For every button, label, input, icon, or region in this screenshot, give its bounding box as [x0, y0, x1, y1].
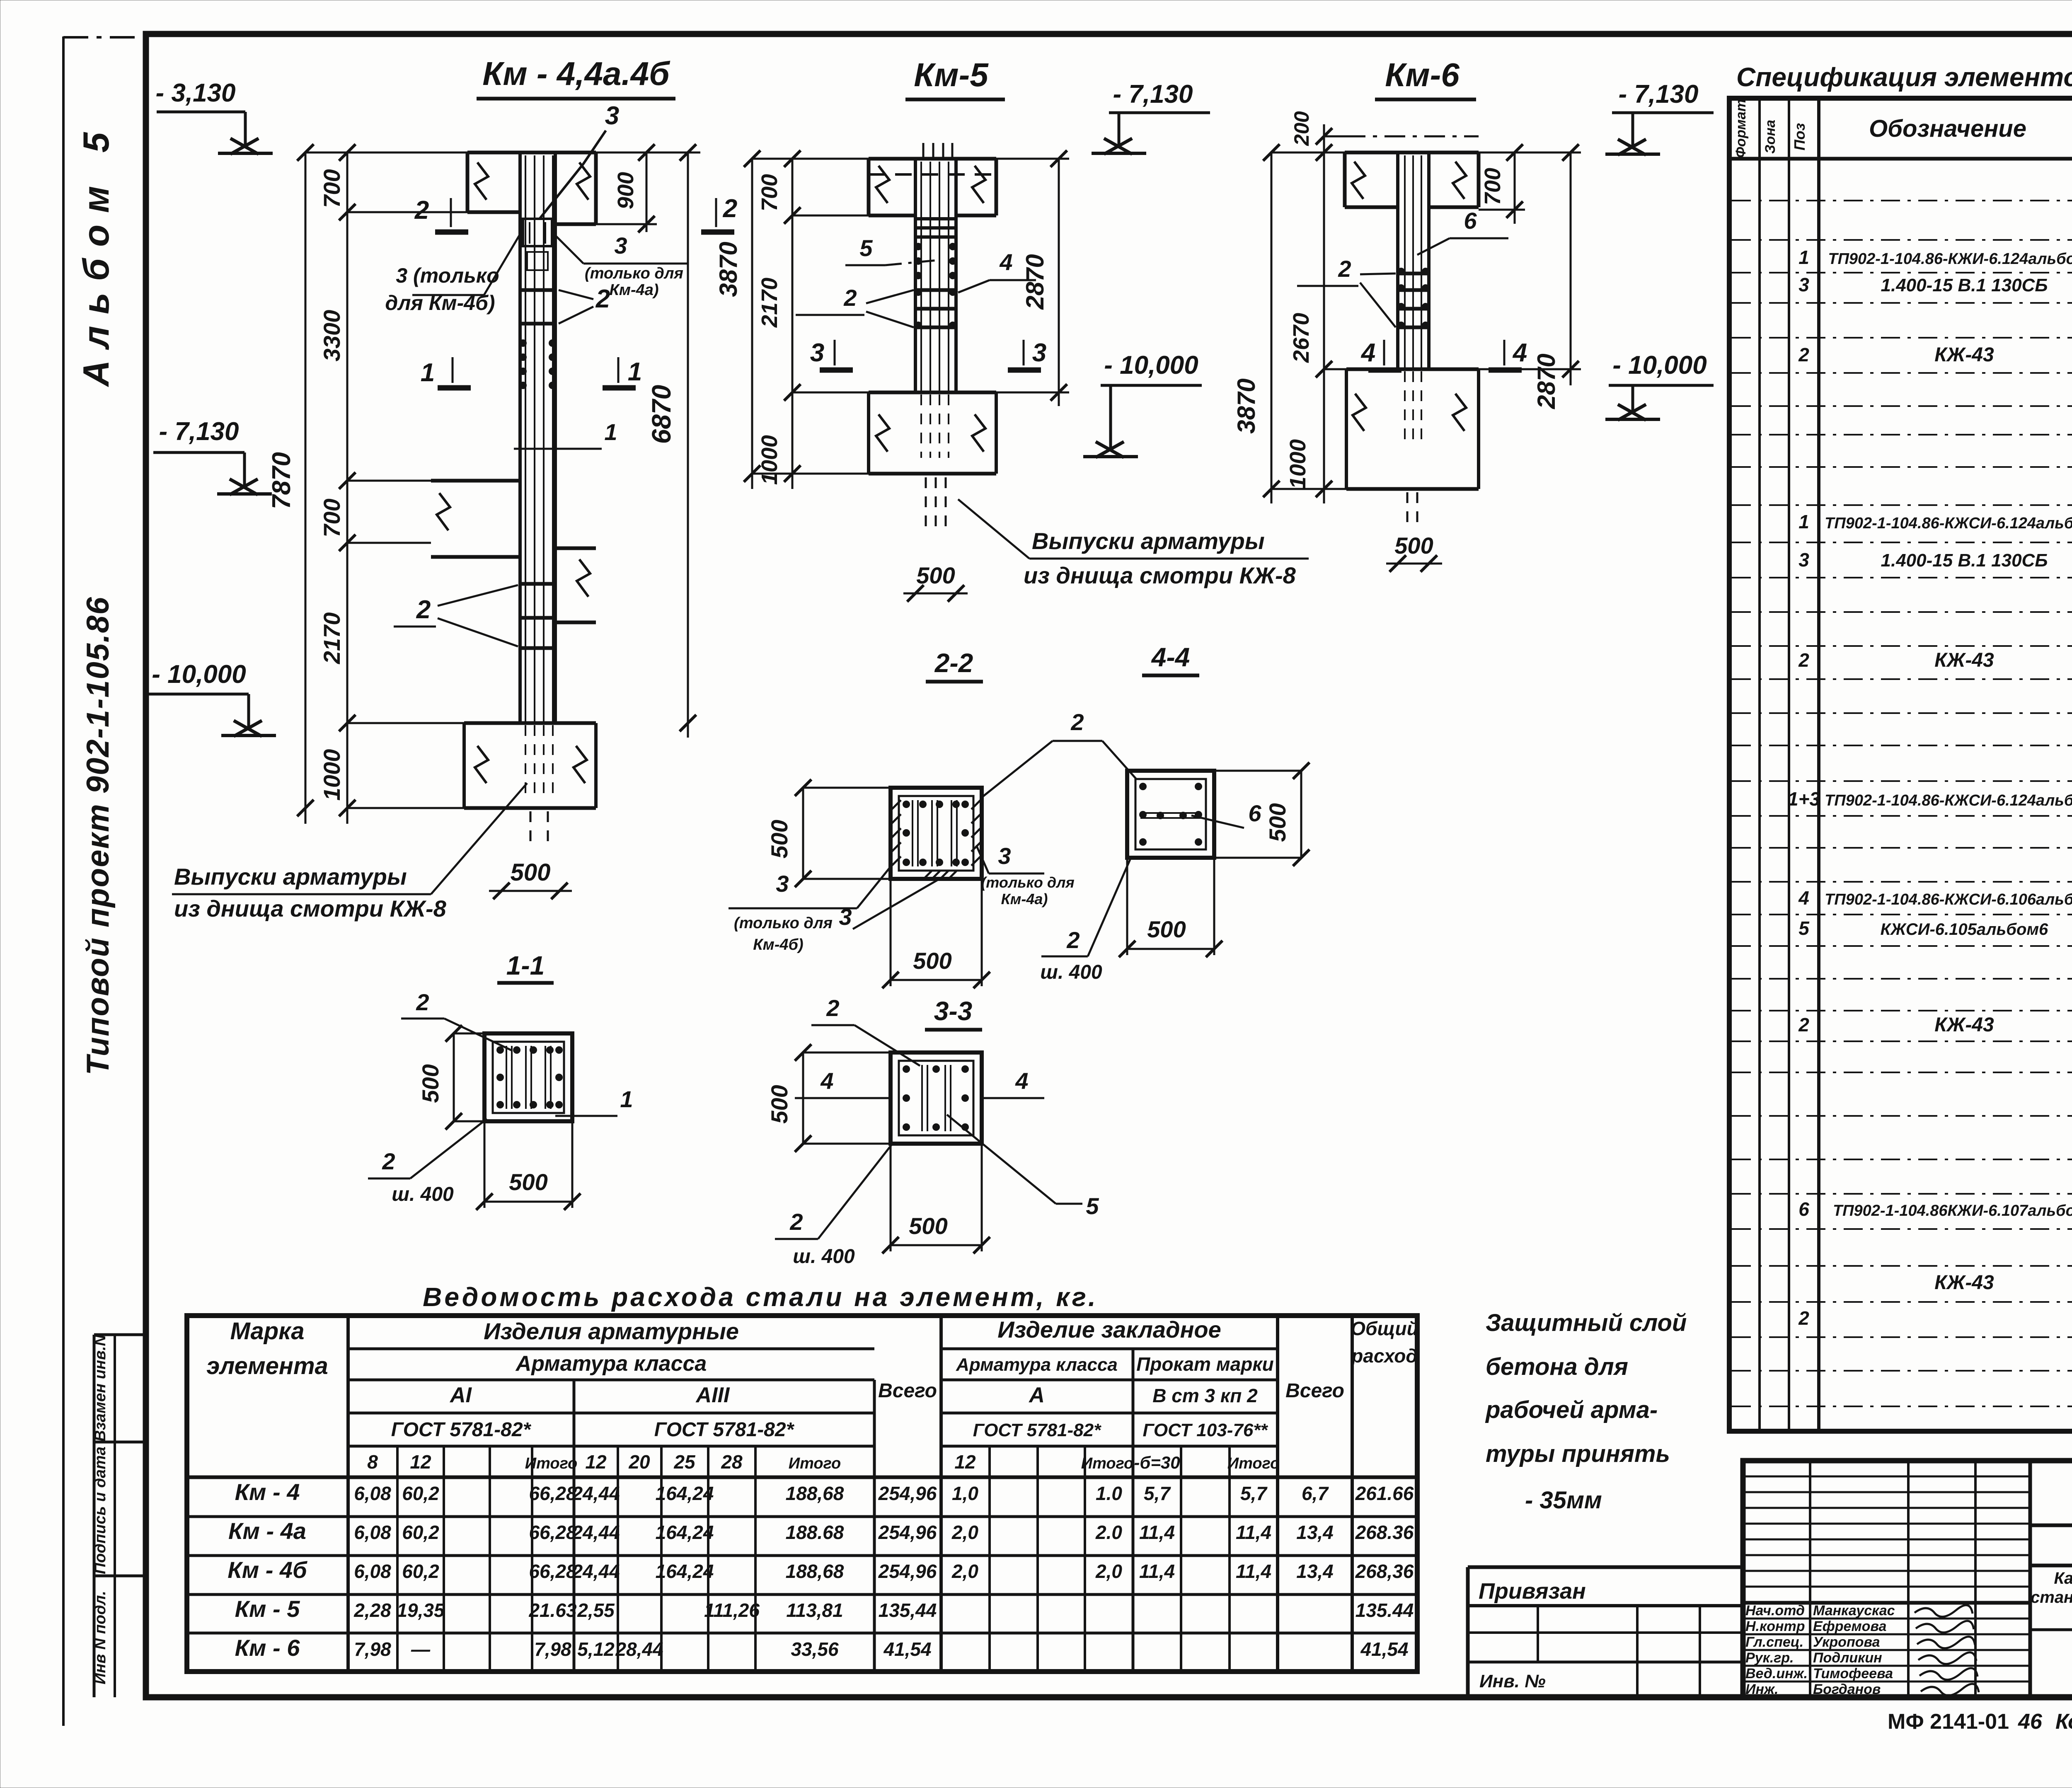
svg-text:бетона для: бетона для — [1486, 1353, 1628, 1380]
svg-text:Ефремова: Ефремова — [1813, 1619, 1886, 1634]
dashed box below plate — [527, 252, 548, 270]
svg-text:268.36: 268.36 — [1355, 1522, 1414, 1543]
svg-text:6: 6 — [1798, 1198, 1809, 1220]
svg-text:4: 4 — [1512, 339, 1527, 367]
svg-text:- 10,000: - 10,000 — [1612, 351, 1707, 380]
svg-text:4: 4 — [999, 249, 1012, 275]
svg-text:2870: 2870 — [1021, 254, 1049, 310]
svg-text:5,12: 5,12 — [577, 1638, 615, 1660]
svg-text:- 10,000: - 10,000 — [1104, 351, 1198, 380]
svg-text:Изделие закладное: Изделие закладное — [997, 1316, 1221, 1343]
section 2-2 outer — [891, 788, 982, 879]
svg-text:Изделия арматурные: Изделия арматурные — [484, 1318, 739, 1344]
svg-text:2.0: 2.0 — [1095, 1522, 1122, 1543]
svg-text:расход: расход — [1351, 1345, 1418, 1367]
svg-text:Общий: Общий — [1351, 1318, 1418, 1339]
svg-text:ТП902-1-104.86КЖИ-6.107альбом6: ТП902-1-104.86КЖИ-6.107альбом6 — [1833, 1202, 2072, 1219]
Km-6 stirrups — [1397, 272, 1430, 276]
svg-text:1.400-15 В.1 130СБ: 1.400-15 В.1 130СБ — [1881, 275, 2048, 295]
svg-text:254,96: 254,96 — [878, 1522, 937, 1543]
svg-text:5: 5 — [1798, 917, 1810, 939]
lower stirrups pos 2 — [519, 582, 557, 586]
svg-text:Км-4б): Км-4б) — [753, 936, 803, 953]
svg-text:- 7,130: - 7,130 — [1113, 80, 1193, 109]
svg-text:12: 12 — [954, 1451, 976, 1473]
svg-text:24,44: 24,44 — [571, 1561, 620, 1582]
svg-text:7,98: 7,98 — [354, 1638, 391, 1660]
svg-text:ш. 400: ш. 400 — [793, 1246, 855, 1268]
svg-text:254,96: 254,96 — [878, 1561, 937, 1582]
svg-text:6870: 6870 — [646, 385, 676, 444]
svg-text:1,0: 1,0 — [952, 1483, 978, 1504]
svg-text:1000: 1000 — [319, 749, 345, 801]
svg-text:—: — — [411, 1638, 431, 1660]
svg-text:4: 4 — [1015, 1068, 1028, 1094]
svg-text:- 35мм: - 35мм — [1525, 1487, 1602, 1514]
svg-text:туры принять: туры принять — [1486, 1440, 1670, 1467]
svg-text:из днища смотри КЖ-8: из днища смотри КЖ-8 — [174, 895, 447, 922]
Km-4 shaft — [518, 152, 522, 723]
svg-text:2,55: 2,55 — [577, 1599, 615, 1621]
svg-text:2: 2 — [382, 1148, 395, 1174]
svg-text:2: 2 — [1066, 927, 1080, 953]
rebar stubs above slab — [922, 143, 925, 159]
Km-4 mid floor slabs — [431, 479, 520, 483]
svg-text:13,4: 13,4 — [1296, 1522, 1334, 1543]
svg-text:2: 2 — [595, 285, 610, 313]
svg-text:1-1: 1-1 — [506, 951, 545, 980]
svg-text:3: 3 — [839, 904, 852, 930]
svg-text:188,68: 188,68 — [786, 1483, 844, 1504]
svg-text:2,28: 2,28 — [353, 1599, 391, 1621]
sheet trim line left — [62, 36, 65, 1726]
svg-text:1: 1 — [421, 358, 435, 387]
svg-text:- 10,000: - 10,000 — [152, 660, 246, 689]
svg-text:рабочей арма-: рабочей арма- — [1485, 1396, 1658, 1423]
dashed row lines — [1732, 200, 2072, 201]
dims of 4-4 — [1300, 771, 1302, 858]
svg-text:20: 20 — [628, 1451, 650, 1473]
svg-text:АI: АI — [449, 1383, 472, 1407]
svg-text:113,81: 113,81 — [786, 1599, 843, 1621]
svg-text:1: 1 — [628, 358, 642, 386]
svg-text:5: 5 — [859, 235, 873, 261]
svg-text:254,96: 254,96 — [878, 1483, 937, 1504]
svg-text:3: 3 — [1798, 274, 1809, 295]
svg-text:11,4: 11,4 — [1139, 1522, 1175, 1543]
svg-text:Арматура класса: Арматура класса — [515, 1352, 707, 1376]
svg-text:ГОСТ 5781-82*: ГОСТ 5781-82* — [973, 1420, 1101, 1440]
svg-text:24,44: 24,44 — [571, 1522, 620, 1543]
svg-text:700: 700 — [319, 498, 345, 537]
svg-text:135.44: 135.44 — [1356, 1599, 1414, 1621]
svg-text:2: 2 — [1338, 256, 1351, 282]
svg-text:-б=30: -б=30 — [1134, 1453, 1180, 1472]
svg-text:6: 6 — [1248, 800, 1261, 826]
svg-text:66,28: 66,28 — [529, 1522, 577, 1543]
leader 1 right — [555, 1115, 617, 1117]
svg-text:188,68: 188,68 — [786, 1561, 844, 1582]
svg-text:60,2: 60,2 — [402, 1522, 439, 1543]
Km-5 dims left — [751, 159, 753, 489]
svg-text:135,44: 135,44 — [879, 1599, 937, 1621]
svg-text:элемента: элемента — [206, 1352, 328, 1379]
svg-text:500: 500 — [913, 948, 951, 974]
svg-text:Км - 4,4а.4б: Км - 4,4а.4б — [482, 55, 670, 92]
svg-text:500: 500 — [511, 859, 551, 886]
svg-text:4: 4 — [1798, 887, 1809, 909]
svg-text:500: 500 — [1264, 803, 1290, 842]
svg-text:6,08: 6,08 — [354, 1483, 391, 1504]
svg-text:11,4: 11,4 — [1236, 1561, 1271, 1582]
svg-text:19,35: 19,35 — [397, 1599, 445, 1621]
rebar dots on shaft — [519, 339, 527, 347]
svg-text:13,4: 13,4 — [1296, 1561, 1334, 1582]
svg-text:7870: 7870 — [267, 452, 296, 509]
svg-text:Вед.инж.: Вед.инж. — [1745, 1666, 1808, 1682]
svg-text:2,0: 2,0 — [951, 1561, 978, 1582]
Km-5 shaft — [914, 159, 917, 392]
svg-text:1: 1 — [620, 1086, 633, 1112]
dim line 7870 — [305, 152, 307, 824]
svg-text:КЖ-43: КЖ-43 — [1934, 344, 1994, 366]
privyazan block — [1468, 1565, 1743, 1569]
svg-text:111,26: 111,26 — [704, 1599, 760, 1621]
svg-text:Итого: Итого — [1081, 1455, 1133, 1472]
svg-text:3300: 3300 — [319, 310, 345, 362]
svg-text:Итого: Итого — [1227, 1455, 1280, 1472]
svg-text:261.66: 261.66 — [1355, 1483, 1414, 1504]
embedded plate box (pos 3) — [523, 219, 552, 246]
dim line segments 700/3300/700/2170/1000 — [346, 152, 349, 824]
svg-text:28: 28 — [721, 1451, 743, 1473]
dims of 2-2 — [802, 788, 804, 879]
svg-text:Марка: Марка — [230, 1318, 304, 1345]
svg-text:5,7: 5,7 — [1144, 1483, 1171, 1504]
svg-text:ГОСТ 5781-82*: ГОСТ 5781-82* — [391, 1419, 532, 1441]
svg-text:ГОСТ 5781-82*: ГОСТ 5781-82* — [654, 1419, 795, 1441]
svg-text:2: 2 — [1798, 1307, 1809, 1329]
svg-text:2: 2 — [416, 595, 431, 624]
svg-text:Ведомость расхода стали на: Ведомость расхода стали на элемент, кг. — [423, 1282, 1098, 1312]
leader 1 mid — [514, 448, 602, 450]
section 3-3 outer — [891, 1052, 982, 1144]
svg-text:(только для: (только для — [734, 915, 833, 932]
svg-text:3: 3 — [810, 339, 824, 367]
svg-text:7,98: 7,98 — [534, 1638, 571, 1660]
left margin stamp boxes — [93, 1335, 96, 1697]
svg-text:700: 700 — [1480, 168, 1505, 205]
svg-text:11,4: 11,4 — [1236, 1522, 1271, 1543]
svg-text:6,7: 6,7 — [1302, 1483, 1329, 1504]
svg-text:- 7,130: - 7,130 — [159, 417, 239, 446]
svg-text:КЖСИ-6.105альбом6: КЖСИ-6.105альбом6 — [1881, 920, 2048, 939]
svg-text:3: 3 — [614, 232, 627, 259]
svg-text:164,24: 164,24 — [656, 1522, 714, 1543]
svg-text:Инв. №: Инв. № — [1479, 1671, 1546, 1691]
svg-text:2: 2 — [1798, 649, 1809, 671]
svg-text:12: 12 — [410, 1451, 431, 1473]
svg-text:МФ 2141-01: МФ 2141-01 — [1888, 1710, 2009, 1734]
svg-text:2: 2 — [1070, 709, 1084, 735]
svg-text:Защитный слой: Защитный слой — [1486, 1309, 1687, 1336]
svg-text:2: 2 — [723, 194, 737, 223]
svg-text:Взамен инв.N: Взамен инв.N — [92, 1334, 109, 1442]
svg-text:станция при глубине заложения: станция при глубине заложения — [2031, 1588, 2072, 1607]
svg-text:5: 5 — [1086, 1193, 1099, 1219]
svg-text:Итого: Итого — [789, 1455, 841, 1472]
svg-text:Всего: Всего — [1285, 1380, 1344, 1402]
dim 6870 right — [687, 152, 689, 738]
svg-text:АIII: АIII — [695, 1383, 730, 1407]
svg-text:Инж.: Инж. — [1745, 1682, 1778, 1697]
svg-text:1+3: 1+3 — [1788, 788, 1820, 810]
svg-text:700: 700 — [757, 174, 782, 211]
svg-text:Тимофеева: Тимофеева — [1813, 1666, 1893, 1682]
svg-text:Манкаускас: Манкаускас — [1813, 1603, 1895, 1619]
leader 5 — [947, 1115, 1056, 1204]
Km-4 footing — [464, 721, 596, 725]
svg-text:(только для: (только для — [981, 874, 1074, 891]
svg-text:6,08: 6,08 — [354, 1561, 391, 1582]
svg-text:В ст 3 кп 2: В ст 3 кп 2 — [1152, 1385, 1258, 1406]
svg-text:КЖ-43: КЖ-43 — [1934, 649, 1994, 671]
svg-text:1.0: 1.0 — [1096, 1483, 1122, 1504]
svg-text:Типовой проект 902-1-105.86: Типовой проект 902-1-105.86 — [80, 596, 116, 1075]
svg-text:33,56: 33,56 — [791, 1638, 839, 1660]
svg-text:Укропова: Укропова — [1813, 1634, 1880, 1650]
svg-text:900: 900 — [613, 172, 638, 209]
svg-text:Итого: Итого — [525, 1455, 577, 1472]
svg-text:2: 2 — [843, 285, 857, 311]
Km-5 dim right 2870 — [1058, 159, 1060, 406]
svg-text:6,08: 6,08 — [354, 1522, 391, 1543]
dim 900 right of top — [646, 152, 648, 232]
Km-6 footing — [1346, 368, 1479, 371]
svg-text:3 (только: 3 (только — [396, 264, 499, 287]
Km-5 top slab — [869, 157, 996, 161]
svg-text:1: 1 — [1798, 247, 1809, 268]
svg-text:Км - 6: Км - 6 — [235, 1635, 300, 1661]
svg-text:ТП902-1-104.86-КЖСИ-6.106альбо: ТП902-1-104.86-КЖСИ-6.106альбом6 — [1825, 891, 2072, 908]
svg-text:24,44: 24,44 — [571, 1483, 620, 1504]
svg-text:3-3: 3-3 — [934, 996, 973, 1026]
svg-text:Км - 4а: Км - 4а — [228, 1518, 306, 1544]
svg-text:Нач.отд: Нач.отд — [1745, 1603, 1805, 1619]
svg-text:500: 500 — [766, 820, 792, 858]
Km-6 top slab — [1345, 151, 1479, 155]
svg-text:8: 8 — [367, 1451, 378, 1473]
rebar outlets dashed below — [530, 811, 532, 845]
svg-text:60,2: 60,2 — [402, 1561, 439, 1582]
svg-text:4: 4 — [820, 1068, 833, 1094]
svg-text:46: 46 — [2018, 1710, 2043, 1734]
dim 500 under Km-4 — [489, 890, 572, 892]
svg-text:КЖ-43: КЖ-43 — [1934, 1272, 1994, 1294]
spec header bottom — [1729, 157, 2072, 161]
svg-text:Зона: Зона — [1762, 120, 1778, 154]
svg-text:Км-5: Км-5 — [914, 56, 989, 93]
svg-text:3870: 3870 — [714, 242, 742, 297]
svg-text:1000: 1000 — [757, 435, 782, 485]
svg-text:2: 2 — [416, 989, 429, 1015]
section 1-1 outer — [484, 1033, 572, 1121]
svg-text:3: 3 — [605, 102, 619, 130]
svg-text:500: 500 — [1394, 532, 1433, 559]
svg-text:200: 200 — [1290, 111, 1313, 146]
svg-text:28,44: 28,44 — [615, 1638, 663, 1660]
svg-text:2: 2 — [414, 196, 429, 225]
svg-text:1000: 1000 — [1285, 439, 1310, 489]
svg-text:КЖ-43: КЖ-43 — [1934, 1014, 1994, 1036]
svg-text:Подпись и дата: Подпись и дата — [92, 1447, 109, 1574]
svg-text:Спецификация элементов к монол: Спецификация элементов к монолитным коло… — [1736, 62, 2072, 92]
upper stirrups pos 2 — [519, 288, 557, 292]
svg-text:1: 1 — [1798, 511, 1809, 532]
svg-text:2-2: 2-2 — [934, 648, 973, 678]
svg-text:2,0: 2,0 — [1095, 1561, 1122, 1582]
svg-text:2,0: 2,0 — [951, 1522, 978, 1543]
svg-text:4-4: 4-4 — [1151, 642, 1190, 672]
svg-text:2170: 2170 — [319, 612, 345, 665]
svg-text:Арматура класса: Арматура класса — [956, 1355, 1118, 1375]
svg-text:Прокат марки: Прокат марки — [1136, 1353, 1274, 1375]
svg-text:2670: 2670 — [1289, 313, 1314, 363]
svg-text:500: 500 — [766, 1085, 792, 1123]
svg-text:21.63: 21.63 — [528, 1599, 577, 1621]
svg-text:ТП902-1-104.86-КЖИ-6.124альбом: ТП902-1-104.86-КЖИ-6.124альбом 6 — [1828, 250, 2072, 268]
svg-text:500: 500 — [916, 562, 955, 588]
svg-text:500: 500 — [509, 1169, 547, 1195]
svg-text:700: 700 — [319, 169, 345, 208]
Km-5 footing — [869, 391, 996, 394]
svg-text:ш. 400: ш. 400 — [392, 1183, 454, 1205]
svg-text:- 7,130: - 7,130 — [1618, 80, 1698, 109]
Km-5 stirrups — [914, 217, 957, 220]
svg-text:А: А — [1028, 1383, 1045, 1407]
svg-text:Всего: Всего — [878, 1380, 937, 1402]
svg-text:(только для: (только для — [585, 265, 683, 282]
svg-text:Км-4а): Км-4а) — [1001, 890, 1048, 907]
dims of 3-3 — [802, 1052, 804, 1144]
hatched plates in 2-2 — [892, 800, 901, 809]
svg-text:3: 3 — [998, 843, 1011, 869]
svg-text:2170: 2170 — [757, 278, 782, 328]
svg-text:3: 3 — [1798, 549, 1809, 571]
svg-text:188.68: 188.68 — [786, 1522, 844, 1543]
svg-text:60,2: 60,2 — [402, 1483, 439, 1504]
svg-text:Инв N подл.: Инв N подл. — [92, 1591, 109, 1684]
svg-text:66,28: 66,28 — [529, 1561, 577, 1582]
svg-text:5,7: 5,7 — [1240, 1483, 1268, 1504]
svg-text:500: 500 — [909, 1213, 947, 1239]
svg-text:Гл.спец.: Гл.спец. — [1745, 1634, 1803, 1650]
svg-text:1: 1 — [604, 419, 617, 445]
svg-text:Рук.гр.: Рук.гр. — [1745, 1650, 1794, 1666]
svg-text:Км - 4: Км - 4 — [235, 1479, 300, 1505]
svg-text:4: 4 — [1360, 339, 1375, 367]
Km-6 top dash-dot line — [1345, 135, 1479, 138]
Km-4 top slab — [467, 151, 596, 155]
svg-text:Альбом 5: Альбом 5 — [75, 121, 116, 387]
svg-text:ш. 400: ш. 400 — [1040, 961, 1102, 983]
svg-text:из днища смотри КЖ-8: из днища смотри КЖ-8 — [1024, 562, 1296, 588]
svg-text:Выпуски арматуры: Выпуски арматуры — [1032, 528, 1265, 554]
svg-text:268,36: 268,36 — [1355, 1561, 1414, 1582]
svg-text:12: 12 — [585, 1451, 607, 1473]
svg-text:66,28: 66,28 — [529, 1483, 577, 1504]
svg-text:ТП902-1-104.86-КЖСИ-6.124альбо: ТП902-1-104.86-КЖСИ-6.124альбом6 — [1825, 792, 2072, 809]
svg-text:41,54: 41,54 — [1360, 1638, 1408, 1660]
svg-text:3870: 3870 — [1232, 378, 1260, 433]
svg-text:Канализационная насосная: Канализационная насосная — [2054, 1569, 2072, 1587]
Km-6 dims left — [1271, 152, 1273, 503]
svg-text:2: 2 — [826, 995, 839, 1021]
leader 6 — [1191, 815, 1244, 828]
svg-text:Обозначение: Обозначение — [1869, 115, 2026, 142]
svg-text:2: 2 — [789, 1209, 803, 1235]
svg-text:2: 2 — [1798, 344, 1809, 365]
Km-6 dims right — [1514, 152, 1516, 224]
svg-text:- 3,130: - 3,130 — [155, 79, 235, 107]
top trim dash-dot — [63, 36, 146, 39]
svg-text:Км-4а): Км-4а) — [609, 281, 658, 299]
section 4-4 outer — [1127, 771, 1214, 858]
dim 500 under Km-5 — [903, 593, 968, 595]
svg-text:164,24: 164,24 — [656, 1483, 714, 1504]
svg-text:Км - 4б: Км - 4б — [228, 1557, 307, 1583]
svg-text:500: 500 — [417, 1064, 443, 1103]
svg-text:Км-6: Км-6 — [1385, 56, 1460, 93]
svg-text:Копировал: Копировал — [2055, 1710, 2072, 1734]
svg-text:2870: 2870 — [1532, 353, 1560, 409]
dims of 1-1 — [453, 1033, 455, 1121]
svg-text:Подликин: Подликин — [1813, 1650, 1882, 1666]
svg-text:ТП902-1-104.86-КЖСИ-6.124альбо: ТП902-1-104.86-КЖСИ-6.124альбом6 — [1825, 515, 2072, 532]
dim 500 under Km-6 — [1386, 563, 1442, 565]
svg-text:Н.контр: Н.контр — [1745, 1619, 1805, 1634]
svg-text:164,24: 164,24 — [656, 1561, 714, 1582]
svg-text:500: 500 — [1147, 916, 1186, 942]
svg-text:3: 3 — [776, 871, 789, 897]
Km-6 shaft — [1396, 152, 1399, 369]
svg-text:Поз: Поз — [1791, 123, 1808, 150]
svg-text:1.400-15 В.1 130СБ: 1.400-15 В.1 130СБ — [1881, 550, 2048, 571]
svg-text:ГОСТ 103-76**: ГОСТ 103-76** — [1143, 1420, 1268, 1440]
svg-text:41,54: 41,54 — [883, 1638, 931, 1660]
svg-text:Привязан: Привязан — [1479, 1579, 1586, 1604]
svg-text:Выпуски арматуры: Выпуски арматуры — [174, 864, 407, 890]
svg-text:6: 6 — [1464, 208, 1477, 234]
svg-text:Богданов: Богданов — [1813, 1682, 1881, 1697]
svg-text:3: 3 — [1032, 339, 1046, 367]
svg-text:25: 25 — [673, 1451, 696, 1473]
svg-text:Формат: Формат — [1733, 99, 1749, 158]
svg-text:2: 2 — [1798, 1014, 1809, 1036]
svg-text:11,4: 11,4 — [1139, 1561, 1175, 1582]
svg-text:Км - 5: Км - 5 — [235, 1596, 300, 1622]
